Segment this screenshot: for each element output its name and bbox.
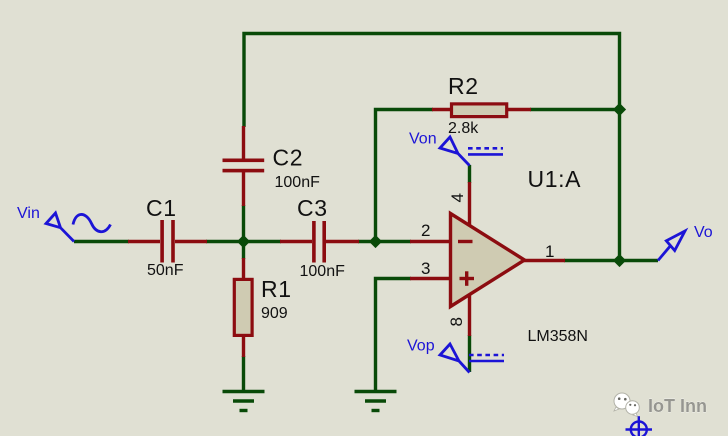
svg-text:R1: R1 [261,276,292,302]
svg-text:909: 909 [261,305,288,322]
svg-text:U1:A: U1:A [528,166,582,192]
wire main horizontal left (Vin to C1) [74,240,129,243]
node D junction dot (output / rail) [613,254,626,267]
svg-text:3: 3 [421,259,430,278]
wire C2 bottom down to node A [242,205,245,242]
svg-text:4: 4 [448,193,467,202]
svg-text:C3: C3 [297,195,328,221]
wire pin 8 to Vop terminal [468,335,471,372]
wire node A down to R1 [242,242,245,260]
svg-text:R2: R2 [448,73,479,99]
capacitor C3 plates [312,221,316,263]
op-amp U1 pin 4 lead [468,182,471,227]
op-amp U1 pin 8 lead [468,292,471,336]
op-amp U1 triangle body [451,214,525,307]
svg-text:IoT Inn: IoT Inn [648,396,707,416]
node C junction dot (R2 right / rail) [613,103,626,116]
Von power rail symbol [468,147,503,150]
resistor R1 leads [242,258,245,279]
svg-text:Vin: Vin [17,205,40,222]
wire op-amp pin 3 to ground [376,279,412,392]
capacitor C2 leads [242,126,245,159]
svg-text:1: 1 [545,242,554,261]
op-amp U1 pin 3 lead [410,277,451,280]
terminal Vop arrow [440,344,470,373]
resistor R2 leads [432,108,451,111]
svg-text:2.8k: 2.8k [448,120,479,137]
svg-text:Vop: Vop [407,338,435,355]
svg-text:50nF: 50nF [147,262,184,279]
op-amp U1 pin 2 lead [410,240,451,243]
svg-text:100nF: 100nF [275,174,321,191]
ground under op-amp pin 3 [355,390,397,393]
wire C3 to node B and op-amp pin 2 [358,240,411,243]
svg-text:100nF: 100nF [300,263,346,280]
wire node B up and right to R2 left [376,110,434,242]
origin crosshair marker [626,416,653,436]
wire R1 bottom to ground [242,356,245,391]
svg-text:Von: Von [409,131,437,148]
resistor R2 body [452,104,507,117]
svg-text:LM358N: LM358N [528,328,588,345]
svg-text:C1: C1 [146,195,177,221]
op-amp U1 minus input symbol [458,240,473,243]
terminal Vin arrow [46,213,74,242]
capacitor C3 leads [280,240,312,243]
op-amp U1 plus input symbol [460,277,475,280]
wire R2 right to right rail [530,108,620,111]
op-amp U1 pin 1 output lead [522,259,565,262]
Vop power rail symbol [469,354,504,357]
ground under R1 [223,390,265,393]
Vin sine wave symbol [73,214,111,231]
wire op-amp output to Vo and right rail [564,259,658,262]
capacitor C1 leads [128,240,160,243]
wire top loop from C2 top to right rail [244,34,620,261]
resistor R1 body [234,279,252,335]
terminal Vo arrow [658,231,685,261]
capacitor C1 plates [160,220,164,263]
wire C1 to node A [206,240,281,243]
node B junction dot [369,235,382,248]
svg-text:8: 8 [447,317,466,326]
watermark WeChat icon [614,393,639,417]
wire Von terminal to pin 4 [468,165,471,183]
svg-text:Vo: Vo [694,224,713,241]
capacitor C2 plates [223,159,265,163]
svg-text:C2: C2 [273,145,304,171]
svg-text:2: 2 [421,221,430,240]
node A junction dot [237,235,250,248]
terminal Von arrow [440,137,470,166]
